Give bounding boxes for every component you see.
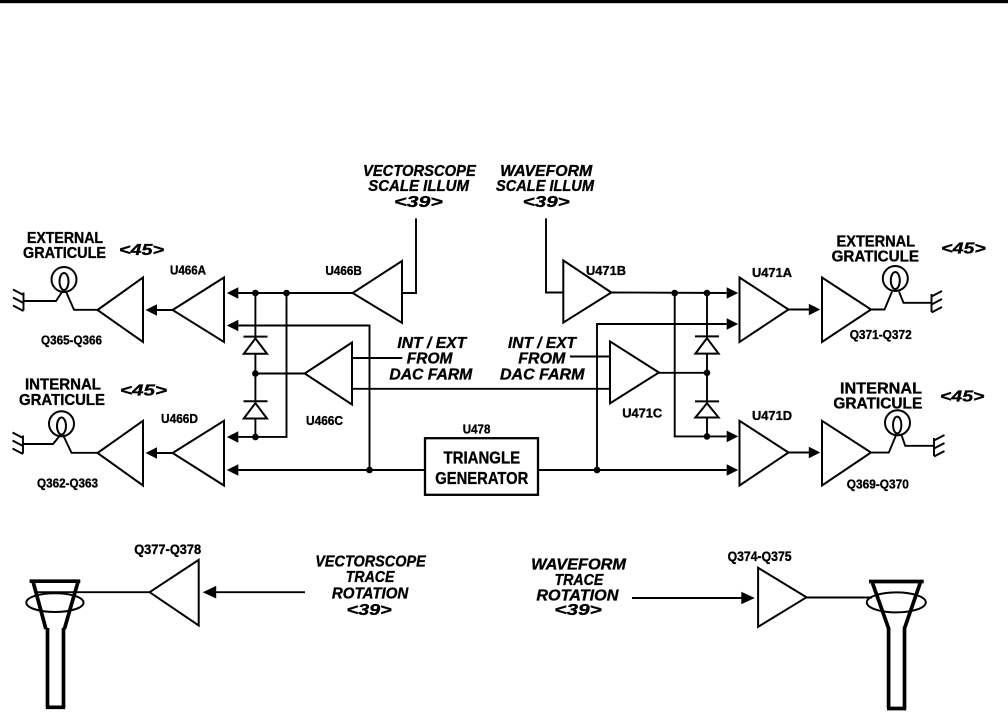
node junction dot at 707,436.4 bbox=[704, 433, 711, 440]
arrowhead into U466A upper input bbox=[227, 287, 239, 299]
wire U471B input from scale illum bbox=[546, 218, 563, 292]
svg-text:U471D: U471D bbox=[752, 408, 792, 423]
wire top bus U471B to U471A bbox=[611, 292, 726, 295]
arrowhead into U471D upper input bbox=[727, 431, 739, 443]
svg-text:DAC FARM: DAC FARM bbox=[500, 367, 585, 384]
svg-text:<45>: <45> bbox=[941, 241, 986, 258]
arrowhead into U466D upper input bbox=[227, 431, 239, 443]
amplifier Q371-Q372 bbox=[822, 278, 871, 343]
label INTERNAL GRATICULE (right) bbox=[833, 380, 922, 412]
svg-text:Q374-Q375: Q374-Q375 bbox=[728, 548, 792, 564]
CRT V2 (waveform crt) bbox=[867, 582, 926, 709]
lamp DS3 (external graticule lamp right) bbox=[883, 266, 908, 291]
svg-text:U466B: U466B bbox=[325, 263, 362, 278]
wire Q371 to lamp DS3 bbox=[871, 292, 892, 310]
svg-text:<45>: <45> bbox=[119, 242, 164, 259]
op-amp U471D bbox=[740, 421, 789, 486]
svg-text:<39>: <39> bbox=[347, 602, 392, 619]
wire triangle generator output right bbox=[538, 469, 727, 471]
arrowhead into Q362 bbox=[146, 447, 158, 459]
node junction dot at 255,373.5 bbox=[252, 370, 259, 377]
wire trace rotation to Q374 bbox=[632, 597, 742, 599]
svg-text:SCALE ILLUM: SCALE ILLUM bbox=[496, 178, 595, 195]
wire U466A lower input from triangle generator bbox=[237, 326, 370, 471]
op-amp U466C bbox=[305, 343, 352, 405]
node junction dot at 369.5,470 bbox=[366, 467, 373, 474]
page top border rule bbox=[0, 0, 1008, 3]
wire lamp DS2 to Q362 amp bbox=[64, 436, 99, 453]
svg-text:Q377-Q378: Q377-Q378 bbox=[134, 541, 201, 557]
wire diode chain vertical left bbox=[254, 293, 256, 437]
svg-text:FROM: FROM bbox=[518, 351, 566, 368]
wire U466C upper stub to DAC FARM bbox=[352, 357, 402, 359]
svg-text:U471B: U471B bbox=[586, 263, 626, 278]
wire lamp DS3 to ground bbox=[899, 292, 932, 303]
op-amp U466B bbox=[353, 261, 402, 323]
svg-text:U478: U478 bbox=[463, 422, 491, 437]
wire long bus U466C to U471C lower bbox=[352, 388, 610, 390]
op-amp U466A bbox=[173, 278, 224, 343]
label TRIANGLE GENERATOR bbox=[435, 447, 528, 488]
diode D3 (right upper) bbox=[695, 336, 719, 353]
op-amp U471C bbox=[610, 341, 659, 403]
svg-text:GRATICULE: GRATICULE bbox=[23, 245, 106, 262]
op-amp U466D bbox=[173, 421, 224, 486]
svg-text:INT / EXT: INT / EXT bbox=[508, 335, 577, 352]
diode D2 (left lower) bbox=[244, 401, 268, 418]
amplifier Q362-Q363 bbox=[98, 421, 144, 486]
arrowhead into Q377 bbox=[203, 586, 217, 599]
svg-text:<39>: <39> bbox=[523, 194, 570, 211]
op-amp U471B bbox=[563, 260, 611, 322]
svg-text:U466A: U466A bbox=[170, 263, 207, 278]
svg-text:<45>: <45> bbox=[940, 389, 984, 406]
svg-text:<39>: <39> bbox=[394, 194, 443, 211]
svg-text:GRATICULE: GRATICULE bbox=[19, 392, 105, 409]
arrowhead into U471A upper input bbox=[727, 287, 739, 299]
node junction dot at 707,372.8 bbox=[704, 370, 711, 377]
arrowhead into Q371 bbox=[809, 304, 821, 316]
wire U466A to Q365 arrow bbox=[156, 309, 173, 311]
node junction dot at 707,293 bbox=[704, 290, 711, 297]
lamp DS1 (external graticule lamp) bbox=[52, 267, 77, 292]
block U478 triangle generator box bbox=[425, 438, 538, 495]
ground chassis (left internal) bbox=[13, 433, 24, 455]
svg-text:U471C: U471C bbox=[622, 405, 663, 420]
label INTERNAL GRATICULE (left) bbox=[19, 377, 105, 409]
node junction dot at 286,293 bbox=[283, 290, 290, 297]
svg-text:Q362-Q363: Q362-Q363 bbox=[37, 476, 98, 491]
amplifier Q369-Q370 bbox=[822, 421, 871, 486]
ground chassis (right external) bbox=[932, 291, 943, 313]
node junction dot at 597,470 bbox=[594, 467, 601, 474]
wire ground to lamp DS2 bbox=[23, 436, 60, 444]
svg-text:TRACE: TRACE bbox=[346, 569, 396, 586]
label EXTERNAL GRATICULE (right) bbox=[832, 234, 920, 266]
wire U471C upper stub to DAC FARM bbox=[570, 356, 610, 358]
diode D1 (left upper) bbox=[244, 337, 268, 354]
wire CRT V1 to Q377 bbox=[35, 591, 150, 593]
wire vertical 674.7 to U471D upper input bbox=[675, 293, 727, 436]
arrowhead into Q369 bbox=[809, 447, 821, 459]
amplifier Q377-Q378 bbox=[150, 560, 199, 626]
svg-text:<39>: <39> bbox=[554, 602, 601, 619]
svg-text:<45>: <45> bbox=[120, 383, 167, 400]
svg-text:U466C: U466C bbox=[306, 413, 344, 428]
svg-text:Q369-Q370: Q369-Q370 bbox=[847, 477, 909, 492]
arrowhead into U466A lower input bbox=[227, 320, 239, 332]
wire Q369 to lamp DS4 bbox=[871, 435, 896, 452]
arrowhead into U466D lower input bbox=[227, 464, 239, 476]
wire lamp DS4 to ground bbox=[902, 435, 935, 446]
diode D4 (right lower) bbox=[695, 401, 719, 417]
svg-text:TRIANGLE: TRIANGLE bbox=[444, 447, 521, 467]
svg-text:SCALE ILLUM: SCALE ILLUM bbox=[368, 178, 469, 195]
node junction dot at 255,437 bbox=[252, 434, 259, 441]
wire node to U466C input bbox=[255, 373, 304, 375]
wire U471C output to node bbox=[659, 372, 707, 374]
arrowhead into Q365 bbox=[146, 304, 158, 316]
arrowhead into Q374 bbox=[741, 592, 755, 605]
amplifier Q365-Q366 bbox=[98, 278, 144, 343]
label EXTERNAL GRATICULE (left) bbox=[23, 230, 106, 262]
wire vertical to U471A lower input bbox=[597, 324, 727, 470]
svg-text:U471A: U471A bbox=[752, 265, 793, 280]
svg-text:INT / EXT: INT / EXT bbox=[397, 335, 467, 352]
wire vertical 286 down to U466D upper input bbox=[237, 293, 287, 437]
wire ground to lamp DS1 bbox=[24, 292, 63, 301]
label INT / EXT FROM DAC FARM (left) bbox=[389, 335, 473, 384]
svg-text:FROM: FROM bbox=[407, 351, 453, 368]
ground chassis (left external) bbox=[13, 290, 24, 312]
svg-text:ROTATION: ROTATION bbox=[332, 585, 409, 602]
node junction dot at 674.7,293 bbox=[671, 290, 678, 297]
arrowhead into U471D lower input bbox=[727, 464, 739, 476]
label VECTORSCOPE SCALE ILLUM 39 bbox=[363, 163, 477, 211]
wire U466D to Q362 arrow bbox=[156, 452, 173, 454]
wire Q374 to CRT V2 bbox=[807, 597, 873, 599]
label INT / EXT FROM DAC FARM (right) bbox=[500, 335, 585, 384]
lamp DS4 (internal graticule lamp right) bbox=[885, 410, 910, 435]
wire top bus U466B to U466A bbox=[237, 292, 353, 294]
wire trace rotation to Q377 bbox=[215, 591, 305, 593]
CRT V1 (vectorscope crt) bbox=[26, 581, 83, 707]
wire lamp DS1 to Q365 amp bbox=[66, 292, 98, 310]
wire U466B input from scale illum bbox=[402, 218, 416, 293]
label VECTORSCOPE TRACE ROTATION 39 bbox=[315, 553, 427, 619]
lamp DS2 (internal graticule lamp) bbox=[49, 411, 74, 436]
ground chassis (right internal) bbox=[934, 435, 945, 457]
amplifier Q374-Q375 bbox=[758, 568, 806, 627]
svg-text:GENERATOR: GENERATOR bbox=[435, 468, 528, 488]
svg-text:GRATICULE: GRATICULE bbox=[832, 249, 920, 266]
label WAVEFORM SCALE ILLUM 39 bbox=[496, 163, 595, 211]
wire U471D to Q369 arrow bbox=[789, 452, 810, 454]
svg-text:Q365-Q366: Q365-Q366 bbox=[41, 333, 102, 348]
svg-text:U466D: U466D bbox=[161, 411, 198, 426]
svg-text:VECTORSCOPE: VECTORSCOPE bbox=[315, 553, 427, 570]
wire U471A to Q371 arrow bbox=[789, 309, 810, 311]
label WAVEFORM TRACE ROTATION 39 bbox=[531, 557, 626, 620]
svg-text:DAC FARM: DAC FARM bbox=[389, 367, 473, 384]
wire diode chain vertical right bbox=[706, 293, 708, 436]
svg-text:Q371-Q372: Q371-Q372 bbox=[850, 327, 912, 342]
wire triangle generator output left bbox=[237, 469, 425, 471]
svg-text:GRATICULE: GRATICULE bbox=[833, 396, 922, 413]
op-amp U471A bbox=[740, 278, 789, 343]
node junction dot at 255,293 bbox=[252, 290, 259, 297]
svg-text:TRACE: TRACE bbox=[554, 572, 604, 589]
arrowhead into U471A lower input bbox=[727, 318, 739, 330]
